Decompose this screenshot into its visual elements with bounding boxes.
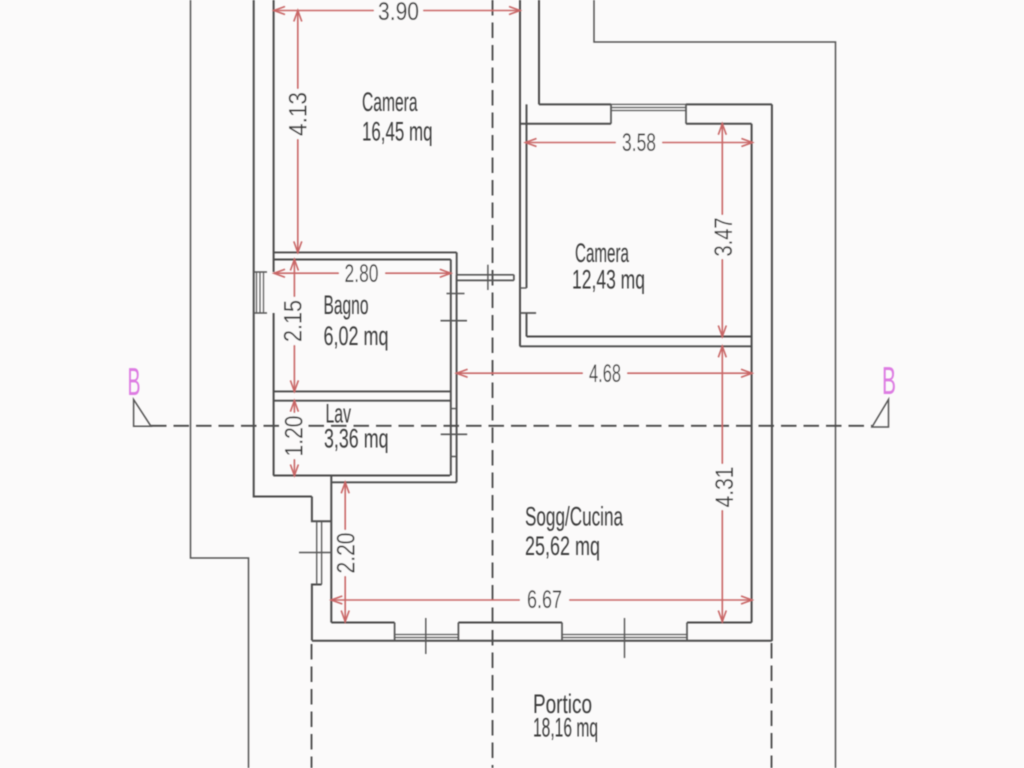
wall bagno/lav east inner (450, 260, 452, 476)
wall sogg left outer face upper (312, 497, 331, 522)
wall right outer face (771, 104, 773, 641)
dimension text 2.15 (280, 297, 308, 345)
svg-text:Sogg/Cucina: Sogg/Cucina (525, 502, 623, 532)
wall right inner face (751, 124, 753, 623)
portico dashed boundary right (771, 643, 773, 768)
wall camera nook south (457, 275, 514, 281)
svg-text:2.20: 2.20 (332, 533, 360, 574)
wall camera right outer face upper (538, 0, 540, 104)
dimension text 4.31 (711, 464, 739, 510)
dimension 2.15 line (293, 260, 295, 392)
window sogg bottom 1 jambs (395, 623, 459, 641)
door bagno tick (441, 320, 468, 322)
door bagno jamb tick (447, 293, 465, 295)
svg-text:6.67: 6.67 (527, 586, 562, 614)
window sogg bottom 1 glazing (395, 635, 459, 638)
window sogg left glazing (317, 521, 322, 584)
svg-text:4.31: 4.31 (711, 467, 739, 508)
svg-text:3,36 mq: 3,36 mq (324, 424, 389, 454)
wall camera right inner face (519, 0, 521, 346)
dimension 1.20 line (293, 401, 295, 476)
svg-text:2.80: 2.80 (345, 260, 379, 288)
svg-text:4.68: 4.68 (589, 360, 621, 388)
svg-text:1.20: 1.20 (281, 416, 309, 457)
door corridor tick (520, 312, 536, 314)
svg-text:12,43 mq: 12,43 mq (572, 265, 645, 295)
svg-text:Bagno: Bagno (324, 290, 369, 320)
nook wall tick (487, 265, 489, 290)
svg-text:3.58: 3.58 (622, 129, 656, 157)
svg-text:18,16 mq: 18,16 mq (533, 713, 598, 743)
property boundary left (191, 0, 249, 768)
svg-text:2.15: 2.15 (280, 300, 308, 342)
center axis dashed line (492, 0, 494, 768)
wall lav bottom lower edge (331, 481, 456, 483)
partition camera/bagno (274, 252, 457, 259)
dimension 6.67 line (331, 599, 752, 601)
dimension text 3.58 (616, 129, 662, 157)
window bagno left jambs (254, 272, 267, 313)
dimension 3.90 line (274, 10, 520, 12)
dimension 3.58 line (526, 142, 753, 144)
section marker triangle left (134, 400, 151, 427)
svg-text:25,62 mq: 25,62 mq (525, 531, 600, 561)
dimension 2.20 line (344, 482, 346, 621)
window sogg bottom 2 tick (624, 618, 626, 658)
svg-text:3.47: 3.47 (710, 218, 738, 257)
svg-text:Camera: Camera (575, 238, 629, 268)
dimension 3.47 line (721, 124, 723, 337)
wall left inner face lower (273, 313, 275, 476)
wall camera2 top outer (539, 103, 772, 105)
wall left inner face upper (273, 0, 275, 272)
wall corridor east (526, 104, 528, 336)
dimension text 4.68 (583, 360, 627, 388)
dimension text 1.20 (281, 413, 309, 459)
dimension 4.31 line (721, 346, 723, 621)
dimension text 2.80 (339, 260, 385, 288)
dimension text 3.90 (374, 0, 423, 26)
wall sogg bottom inner segments (331, 622, 751, 624)
dimension text 4.13 (285, 89, 313, 139)
svg-text:B: B (882, 360, 896, 403)
window sogg left tick (299, 552, 331, 554)
partition camera2 bottom (520, 337, 752, 347)
wall bagno/lav east outer (456, 275, 458, 483)
window sogg bottom 2 glazing (562, 635, 687, 638)
property boundary right (594, 0, 836, 768)
svg-text:4.13: 4.13 (285, 92, 313, 136)
section line B-B dashed (151, 425, 872, 427)
window camera2 top jambs (611, 104, 686, 123)
door lav jambs (450, 409, 457, 457)
window sogg bottom 2 jambs (562, 623, 687, 641)
wall sogg bottom outer (312, 640, 772, 642)
window sogg bottom 1 tick (425, 618, 427, 654)
wall lav bottom inner (273, 475, 450, 477)
dimension text 3.47 (710, 215, 738, 259)
svg-text:3.90: 3.90 (378, 0, 419, 26)
door corridor jamb (520, 287, 527, 289)
partition joint vertical (456, 252, 458, 274)
window camera2 top glazing (611, 104, 686, 110)
dimension 4.13 line (297, 11, 299, 253)
wall camera2 top inner (520, 123, 752, 125)
dimension 4.68 line (457, 372, 752, 374)
red dimension lines (274, 7, 752, 622)
wall sogg left inner face (330, 476, 332, 623)
wall left outer face (254, 0, 312, 497)
svg-text:6,02 mq: 6,02 mq (324, 321, 389, 351)
dimension text 2.20 (332, 530, 360, 576)
svg-text:16,45 mq: 16,45 mq (362, 117, 433, 147)
svg-text:B: B (128, 361, 141, 404)
svg-text:Camera: Camera (362, 87, 418, 117)
portico dashed boundary left (311, 644, 313, 768)
wall sogg left outer face lower (312, 585, 322, 641)
dimension text 6.67 (520, 586, 569, 614)
window bagno left glazing (257, 272, 264, 313)
partition bagno/lav (274, 391, 452, 400)
section marker triangle right (872, 400, 889, 428)
dimension 2.80 line (274, 272, 451, 274)
door lav tick (441, 433, 468, 435)
